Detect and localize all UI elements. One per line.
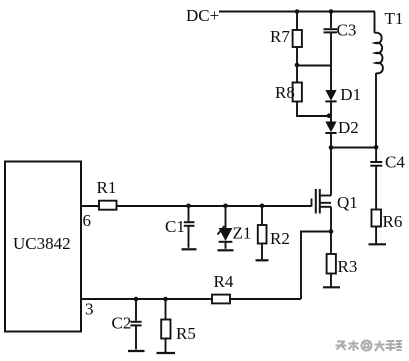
svg-text:Q1: Q1 [337,193,358,212]
wire pin6 lead [81,205,99,207]
diode D2 [325,118,358,137]
svg-text:C4: C4 [385,153,405,172]
svg-text:3: 3 [85,300,94,319]
node top rail to C3 [329,9,334,14]
svg-text:R1: R1 [97,178,117,197]
wire R7 bottom lead [296,47,298,65]
wire pin3 rail [81,298,212,300]
svg-text:T1: T1 [385,9,404,28]
wire R7 junction to diode line [297,65,331,67]
svg-text:R6: R6 [383,212,403,231]
svg-text:D2: D2 [338,118,359,137]
wire R7 top lead [296,12,298,31]
svg-text:DC+: DC+ [186,6,219,25]
node R7 bottom junction [295,63,300,68]
node top rail to R7 [295,9,300,14]
wire R4 to Q1 source column [230,298,301,300]
svg-text:R7: R7 [270,27,290,46]
resistor R1 [97,178,117,210]
svg-text:C3: C3 [337,21,357,40]
wire Q1 source lead [330,207,332,232]
resistor R3 [327,254,358,276]
IC U1 UC3842 [5,162,81,332]
wire D1 to D2 [330,101,332,121]
wire C3 to D1 [330,32,332,90]
transistor Q1 MOSFET [312,189,358,214]
svg-text:Z1: Z1 [233,224,252,243]
ground bar under R6 [369,243,387,245]
ground bar under C2 [128,350,145,352]
capacitor C2 [112,299,142,350]
wire source junction to pin3 column [301,232,331,300]
wire drain node to C4 column [331,147,376,149]
svg-text:R8: R8 [275,83,295,102]
wire R6 bottom lead [375,227,377,244]
wire R8 top lead [296,65,298,83]
ground bar under R3 [323,286,340,288]
diode D1 [325,85,361,104]
wire C3 top lead [330,12,332,29]
svg-text:R4: R4 [214,272,234,291]
svg-text:R5: R5 [176,324,196,343]
svg-text:C1: C1 [165,217,185,236]
wire top DC+ rail [219,11,375,13]
svg-text:R2: R2 [270,229,290,248]
wire C4 top lead [375,148,377,162]
node Q1 source junction [329,229,334,234]
wire gate rail R1 to Q1 [117,205,312,207]
resistor R5 [161,299,196,352]
capacitor C4 [370,153,405,172]
ground bar under R5 [157,352,176,354]
wire R3 bottom lead [330,274,332,287]
node gate rail to R2 [260,204,265,209]
node pin3 to C2 [134,297,139,302]
capacitor C1 [165,206,195,248]
wire D2 to drain node [330,133,332,148]
wire drain lead from node to Q1 [330,148,332,196]
resistor R7 [270,27,302,47]
node C4 column junction [374,145,379,150]
svg-text:D1: D1 [340,85,361,104]
resistor R6 [372,210,403,232]
ground bar under Z1 [218,249,234,251]
svg-text:C2: C2 [112,314,132,333]
capacitor C3 [324,21,357,40]
node pin3 to R5 [163,297,168,302]
wire C4 to R6 [375,166,377,210]
resistor R4 [212,272,234,303]
node R8 to diode line [327,113,332,118]
zener diode Z1 [218,206,252,249]
svg-text:R3: R3 [338,257,358,276]
wire R8 bottom lead to diode line [297,102,329,117]
node gate rail to Z1 [223,204,228,209]
ground bar under R2 [256,259,269,261]
resistor R2 [258,206,290,259]
transformer T1 [375,9,404,148]
watermark bottom right [336,341,403,352]
ground bar under C1 [182,248,197,250]
svg-text:UC3842: UC3842 [13,234,71,253]
node D2 bottom junction [329,145,334,150]
node gate rail to C1 [186,204,191,209]
wire R3 top lead [330,232,332,255]
svg-text:6: 6 [83,211,92,230]
resistor R8 [275,83,302,103]
